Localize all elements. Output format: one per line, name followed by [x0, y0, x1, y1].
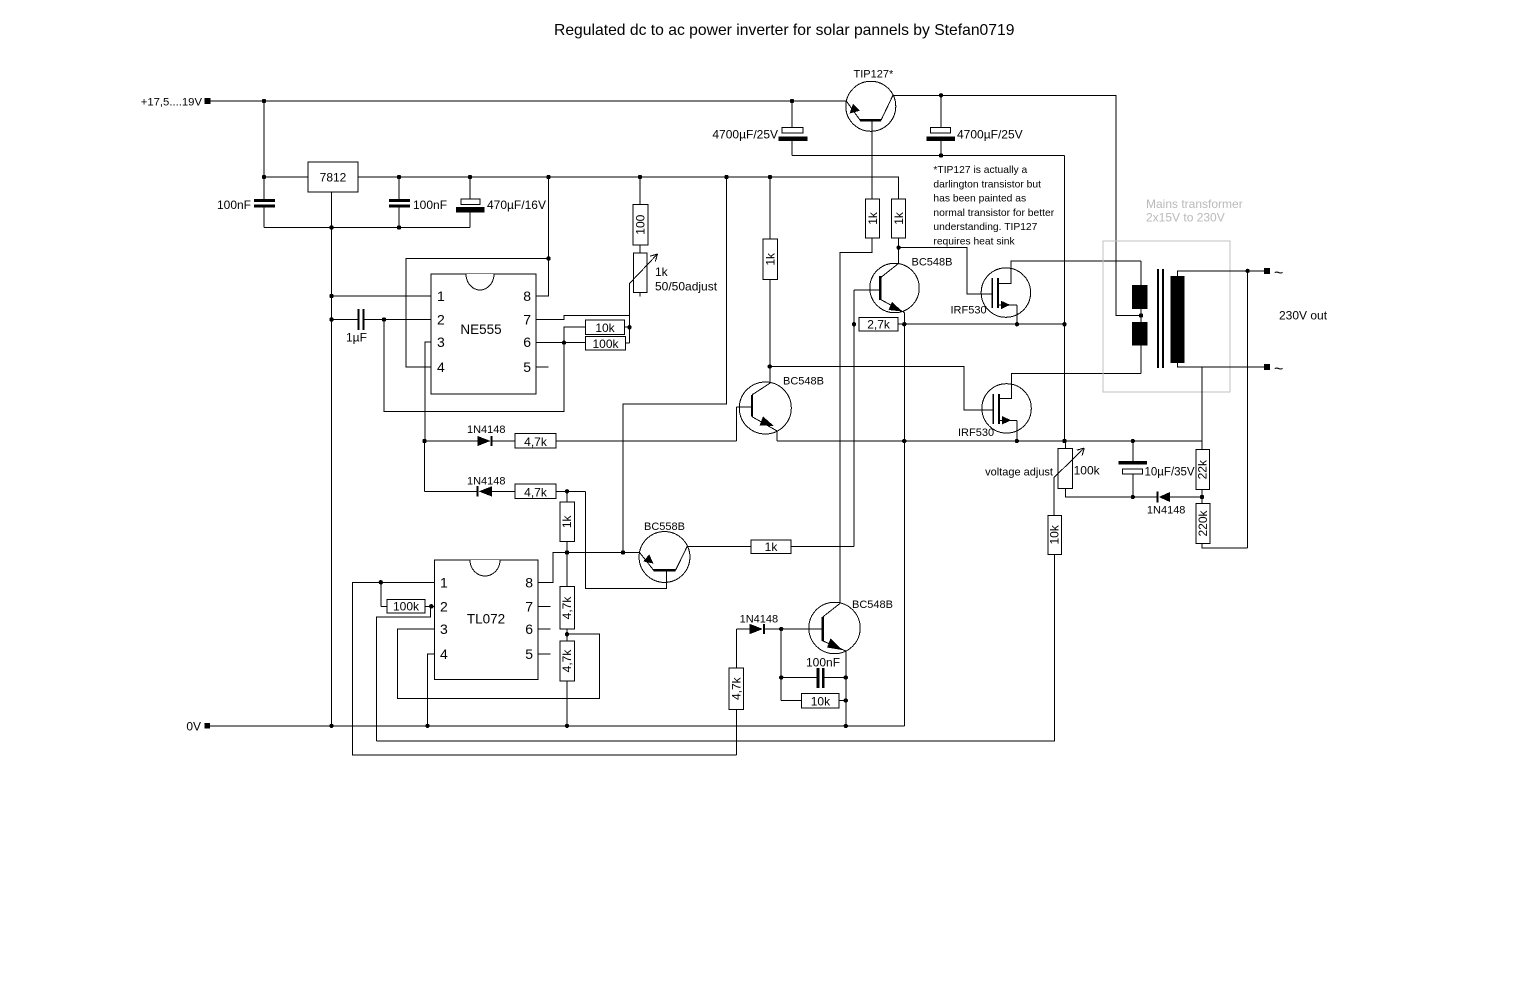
- diode 1N4148 lower: [425, 490, 478, 492]
- resistor 2,7k: [859, 317, 898, 331]
- svg-text:1: 1: [440, 574, 448, 590]
- transistor Q4 BC548B middle: [739, 382, 791, 434]
- IC U2 TL072: [434, 560, 538, 680]
- diode 1N4148 (to lower BC548B): [737, 628, 750, 630]
- transformer primary winding lower: [1132, 322, 1148, 346]
- node pin3 output junction: [422, 439, 426, 443]
- wire primary center tap: [1140, 309, 1142, 322]
- resistor 10k (555 timing): [564, 327, 586, 342]
- wire primary bottom lead: [1140, 346, 1142, 374]
- svg-text:1k: 1k: [655, 265, 669, 279]
- node +17,5....19V input terminal: [205, 98, 211, 104]
- node output terminal lower: [1264, 364, 1270, 370]
- capacitor 10µF/35V: [1132, 441, 1134, 461]
- wire NE555 pin4 to pin8 column: [406, 259, 549, 368]
- svg-text:understanding. TIP127: understanding. TIP127: [933, 222, 1037, 233]
- svg-text:0V: 0V: [186, 720, 201, 734]
- svg-text:1k: 1k: [560, 514, 574, 528]
- svg-text:2: 2: [437, 312, 445, 328]
- wire BC548B base column: [853, 290, 855, 546]
- capacitor 100nF input: [263, 177, 265, 199]
- wire TL072 pin1 feedback: [352, 582, 736, 755]
- svg-text:2: 2: [440, 598, 448, 614]
- svg-text:1N4148: 1N4148: [740, 614, 779, 626]
- node junction dot: [546, 175, 550, 179]
- transistor Q1 TIP127: [846, 81, 896, 131]
- svg-text:BC548B: BC548B: [852, 599, 893, 611]
- wire capacitor bottom rail: [792, 155, 1065, 157]
- wire ground rail under 7812: [264, 227, 470, 229]
- svg-text:2,7k: 2,7k: [867, 318, 891, 332]
- resistor 10k (wiper): [1048, 515, 1062, 554]
- node output terminal upper: [1264, 268, 1270, 274]
- wire 10k down to feedback line B: [377, 554, 1055, 741]
- node junction dot: [329, 225, 333, 229]
- svg-text:IRF530: IRF530: [958, 427, 994, 439]
- svg-text:4: 4: [440, 646, 448, 662]
- resistor 1k (rail to BC548B collector): [892, 199, 906, 238]
- node junction dot: [397, 225, 401, 229]
- svg-text:TL072: TL072: [467, 612, 505, 627]
- wire TL072 pin6 stub: [538, 628, 550, 630]
- wire NE555 pin8 to 12V rail: [536, 177, 549, 296]
- svg-text:10µF/35V: 10µF/35V: [1145, 467, 1195, 479]
- wire TL072 pin5 stub: [538, 653, 550, 655]
- svg-text:BC548B: BC548B: [783, 376, 824, 388]
- node junction dot: [724, 175, 728, 179]
- wire 1k base resistor to lower BC548B collector: [840, 238, 872, 604]
- wire source node column right: [1064, 156, 1066, 442]
- wire BC558B emitter rail: [553, 552, 640, 554]
- svg-text:1N4148: 1N4148: [467, 476, 506, 488]
- svg-text:10k: 10k: [595, 321, 615, 335]
- svg-text:470µF/16V: 470µF/16V: [487, 198, 546, 212]
- svg-text:*TIP127 is actually a: *TIP127 is actually a: [933, 165, 1027, 176]
- svg-text:BC548B: BC548B: [912, 257, 953, 269]
- resistor 100k feedback: [380, 582, 382, 606]
- svg-text:100nF: 100nF: [217, 198, 251, 212]
- svg-text:230V out: 230V out: [1279, 309, 1328, 323]
- svg-text:4: 4: [437, 359, 445, 375]
- svg-text:3: 3: [440, 621, 448, 637]
- wire TL072 pin2 to line B: [377, 606, 431, 741]
- svg-text:100: 100: [634, 214, 648, 234]
- resistor 1k (TIP127 base): [866, 199, 880, 238]
- transformer T1 outline: [1103, 241, 1230, 392]
- wire middle BC548B collector to 1k and IRF530 lower gate: [769, 280, 771, 384]
- node 0V terminal: [204, 723, 210, 729]
- node junction dot: [768, 175, 772, 179]
- resistor 4,7k (diode input): [736, 629, 738, 668]
- wire primary top lead: [1140, 261, 1142, 285]
- svg-text:1µF: 1µF: [346, 331, 367, 345]
- wire supply to 7812 input: [263, 101, 265, 177]
- svg-text:4700µF/25V: 4700µF/25V: [957, 128, 1023, 142]
- svg-text:~: ~: [1274, 361, 1283, 378]
- svg-text:requires heat sink: requires heat sink: [933, 237, 1015, 248]
- svg-text:1N4148: 1N4148: [1147, 505, 1186, 517]
- svg-text:50/50adjust: 50/50adjust: [655, 280, 718, 294]
- transformer primary winding upper: [1132, 285, 1148, 309]
- resistor 1k (BC558B collector): [687, 545, 751, 547]
- svg-text:IRF530: IRF530: [951, 305, 987, 317]
- potentiometer 100k voltage adjust: [1064, 441, 1066, 449]
- IC U1 NE555: [431, 274, 536, 394]
- svg-text:Mains transformer: Mains transformer: [1146, 197, 1243, 211]
- svg-text:normal transistor for better: normal transistor for better: [933, 208, 1054, 219]
- potentiometer 1k 50/50adjust: [634, 253, 648, 293]
- transistor Q7 BC548B lower: [809, 602, 860, 653]
- wire 7812 input: [264, 176, 308, 178]
- wire to BC558B base: [586, 491, 667, 588]
- wire NE555 pin5 stub: [536, 366, 549, 368]
- svg-text:8: 8: [525, 574, 533, 590]
- resistor 4,7k upper: [515, 434, 556, 449]
- svg-text:7812: 7812: [320, 171, 347, 185]
- wire NE555 pin3 output: [425, 342, 431, 441]
- wire NE555 pin1 to ground column: [332, 295, 431, 297]
- wire middle BC548B base: [736, 407, 738, 441]
- svg-text:220k: 220k: [1196, 509, 1210, 536]
- wire NE555 pin2 to pin6 loop: [384, 320, 564, 412]
- svg-text:BC558B: BC558B: [644, 521, 685, 533]
- resistor 10k (base-emitter): [781, 700, 801, 702]
- capacitor 100nF output: [398, 177, 400, 199]
- svg-text:8: 8: [523, 288, 531, 304]
- wire secondary bottom to 22k: [1201, 367, 1203, 450]
- resistor 4,7k lower: [515, 484, 556, 498]
- wire 7812 ground pin: [331, 192, 333, 726]
- svg-text:7: 7: [523, 312, 531, 328]
- resistor 1k (collector load): [763, 239, 778, 280]
- node junction dot: [790, 99, 794, 103]
- svg-text:1k: 1k: [866, 211, 880, 225]
- svg-text:1k: 1k: [765, 540, 779, 554]
- wire TL072 pin3 to divider: [398, 629, 600, 698]
- wire NE555 pin6: [536, 342, 586, 344]
- svg-text:NE555: NE555: [460, 322, 501, 337]
- capacitor 100nF (BC548B): [780, 629, 782, 701]
- svg-text:5: 5: [523, 359, 531, 375]
- wire pot wiper column: [629, 284, 631, 344]
- svg-text:1k: 1k: [892, 211, 906, 225]
- wire TIP127 base: [871, 120, 873, 199]
- capacitor 4700µF/25V right: [940, 95, 942, 127]
- transistor Q3 IRF530 upper: [981, 268, 1030, 317]
- svg-text:100nF: 100nF: [413, 198, 447, 212]
- node junction dot: [468, 175, 472, 179]
- wire TL072 pin7 stub: [538, 605, 550, 607]
- wire middle BC548B emitter: [776, 431, 778, 441]
- wire to middle BC548B base: [556, 440, 737, 442]
- svg-text:4,7k: 4,7k: [729, 676, 743, 700]
- diode 1N4148 feedback: [1133, 496, 1158, 498]
- svg-text:5: 5: [525, 646, 533, 662]
- transformer core: [1157, 269, 1159, 368]
- regulator 7812: [308, 162, 358, 192]
- svg-text:4,7k: 4,7k: [560, 596, 574, 620]
- wire 0V column to source rail: [903, 324, 905, 726]
- svg-text:7: 7: [525, 598, 533, 614]
- diode 1N4148 upper: [425, 440, 478, 442]
- svg-text:10k: 10k: [811, 694, 831, 708]
- wire NE555 pin7: [536, 315, 630, 319]
- resistor 22k: [1196, 450, 1210, 490]
- svg-text:darlington transistor but: darlington transistor but: [933, 179, 1041, 190]
- capacitor 1µF: [332, 319, 358, 321]
- wire wiper to 10k: [1053, 478, 1055, 516]
- svg-text:4700µF/25V: 4700µF/25V: [712, 128, 778, 142]
- svg-text:1: 1: [437, 288, 445, 304]
- svg-text:has been painted as: has been painted as: [933, 194, 1026, 205]
- resistor 100: [639, 177, 641, 205]
- node junction dot: [638, 175, 642, 179]
- resistor 100k (555 timing): [586, 337, 626, 351]
- transistor Q2 BC548B upper: [870, 263, 919, 312]
- svg-text:1k: 1k: [764, 252, 778, 266]
- wire top supply rail left: [211, 100, 847, 102]
- capacitor 470µF/16V: [469, 177, 471, 199]
- node junction dot: [397, 175, 401, 179]
- svg-text:~: ~: [1274, 265, 1283, 282]
- wire 1k to BC548B collector and IRF530 gate: [898, 238, 900, 264]
- svg-text:Regulated dc to ac power inver: Regulated dc to ac power inverter for so…: [554, 22, 1014, 39]
- wire top supply rail right to transformer center tap: [893, 95, 1141, 315]
- svg-text:1N4148: 1N4148: [467, 424, 506, 436]
- svg-text:10k: 10k: [1048, 524, 1062, 544]
- svg-text:2x15V to 230V: 2x15V to 230V: [1146, 211, 1225, 225]
- resistor 4,7k divider lower: [560, 641, 575, 681]
- node junction dot: [262, 99, 266, 103]
- svg-text:3: 3: [437, 334, 445, 350]
- wire 12V to BC558B emitter node: [623, 177, 727, 553]
- wire TL072 pin4 to 0V: [428, 654, 435, 726]
- resistor 220k: [1196, 504, 1210, 544]
- capacitor 4700µF/25V left: [791, 101, 793, 127]
- resistor 1k pull-up: [566, 491, 568, 502]
- wire 0V rail: [210, 725, 904, 727]
- svg-text:4,7k: 4,7k: [560, 649, 574, 673]
- svg-text:4,7k: 4,7k: [524, 435, 548, 449]
- svg-text:4,7k: 4,7k: [524, 485, 548, 499]
- svg-text:voltage adjust: voltage adjust: [985, 467, 1053, 479]
- resistor 4,7k divider upper: [566, 553, 568, 587]
- wire source rail right: [777, 440, 1202, 442]
- svg-text:6: 6: [525, 621, 533, 637]
- svg-text:100k: 100k: [1074, 464, 1101, 478]
- wire TL072 pin8 to 12V node: [538, 553, 567, 583]
- transistor Q5 IRF530 lower: [982, 384, 1031, 433]
- node junction dot: [262, 175, 266, 179]
- svg-text:TIP127*: TIP127*: [854, 69, 894, 81]
- wire secondary bottom to output: [1178, 363, 1265, 367]
- svg-text:100k: 100k: [592, 337, 619, 351]
- node junction dot: [939, 93, 943, 97]
- svg-text:+17,5....19V: +17,5....19V: [141, 97, 203, 109]
- wire feedback from output top: [1247, 271, 1249, 548]
- wire secondary top to output: [1178, 271, 1265, 276]
- svg-text:6: 6: [523, 334, 531, 350]
- svg-text:100k: 100k: [393, 600, 420, 614]
- svg-text:100nF: 100nF: [806, 656, 840, 670]
- transformer secondary winding: [1170, 276, 1184, 363]
- transistor Q6 BC558B: [639, 532, 690, 583]
- wire 12V rail: [358, 177, 899, 199]
- svg-text:22k: 22k: [1196, 459, 1210, 479]
